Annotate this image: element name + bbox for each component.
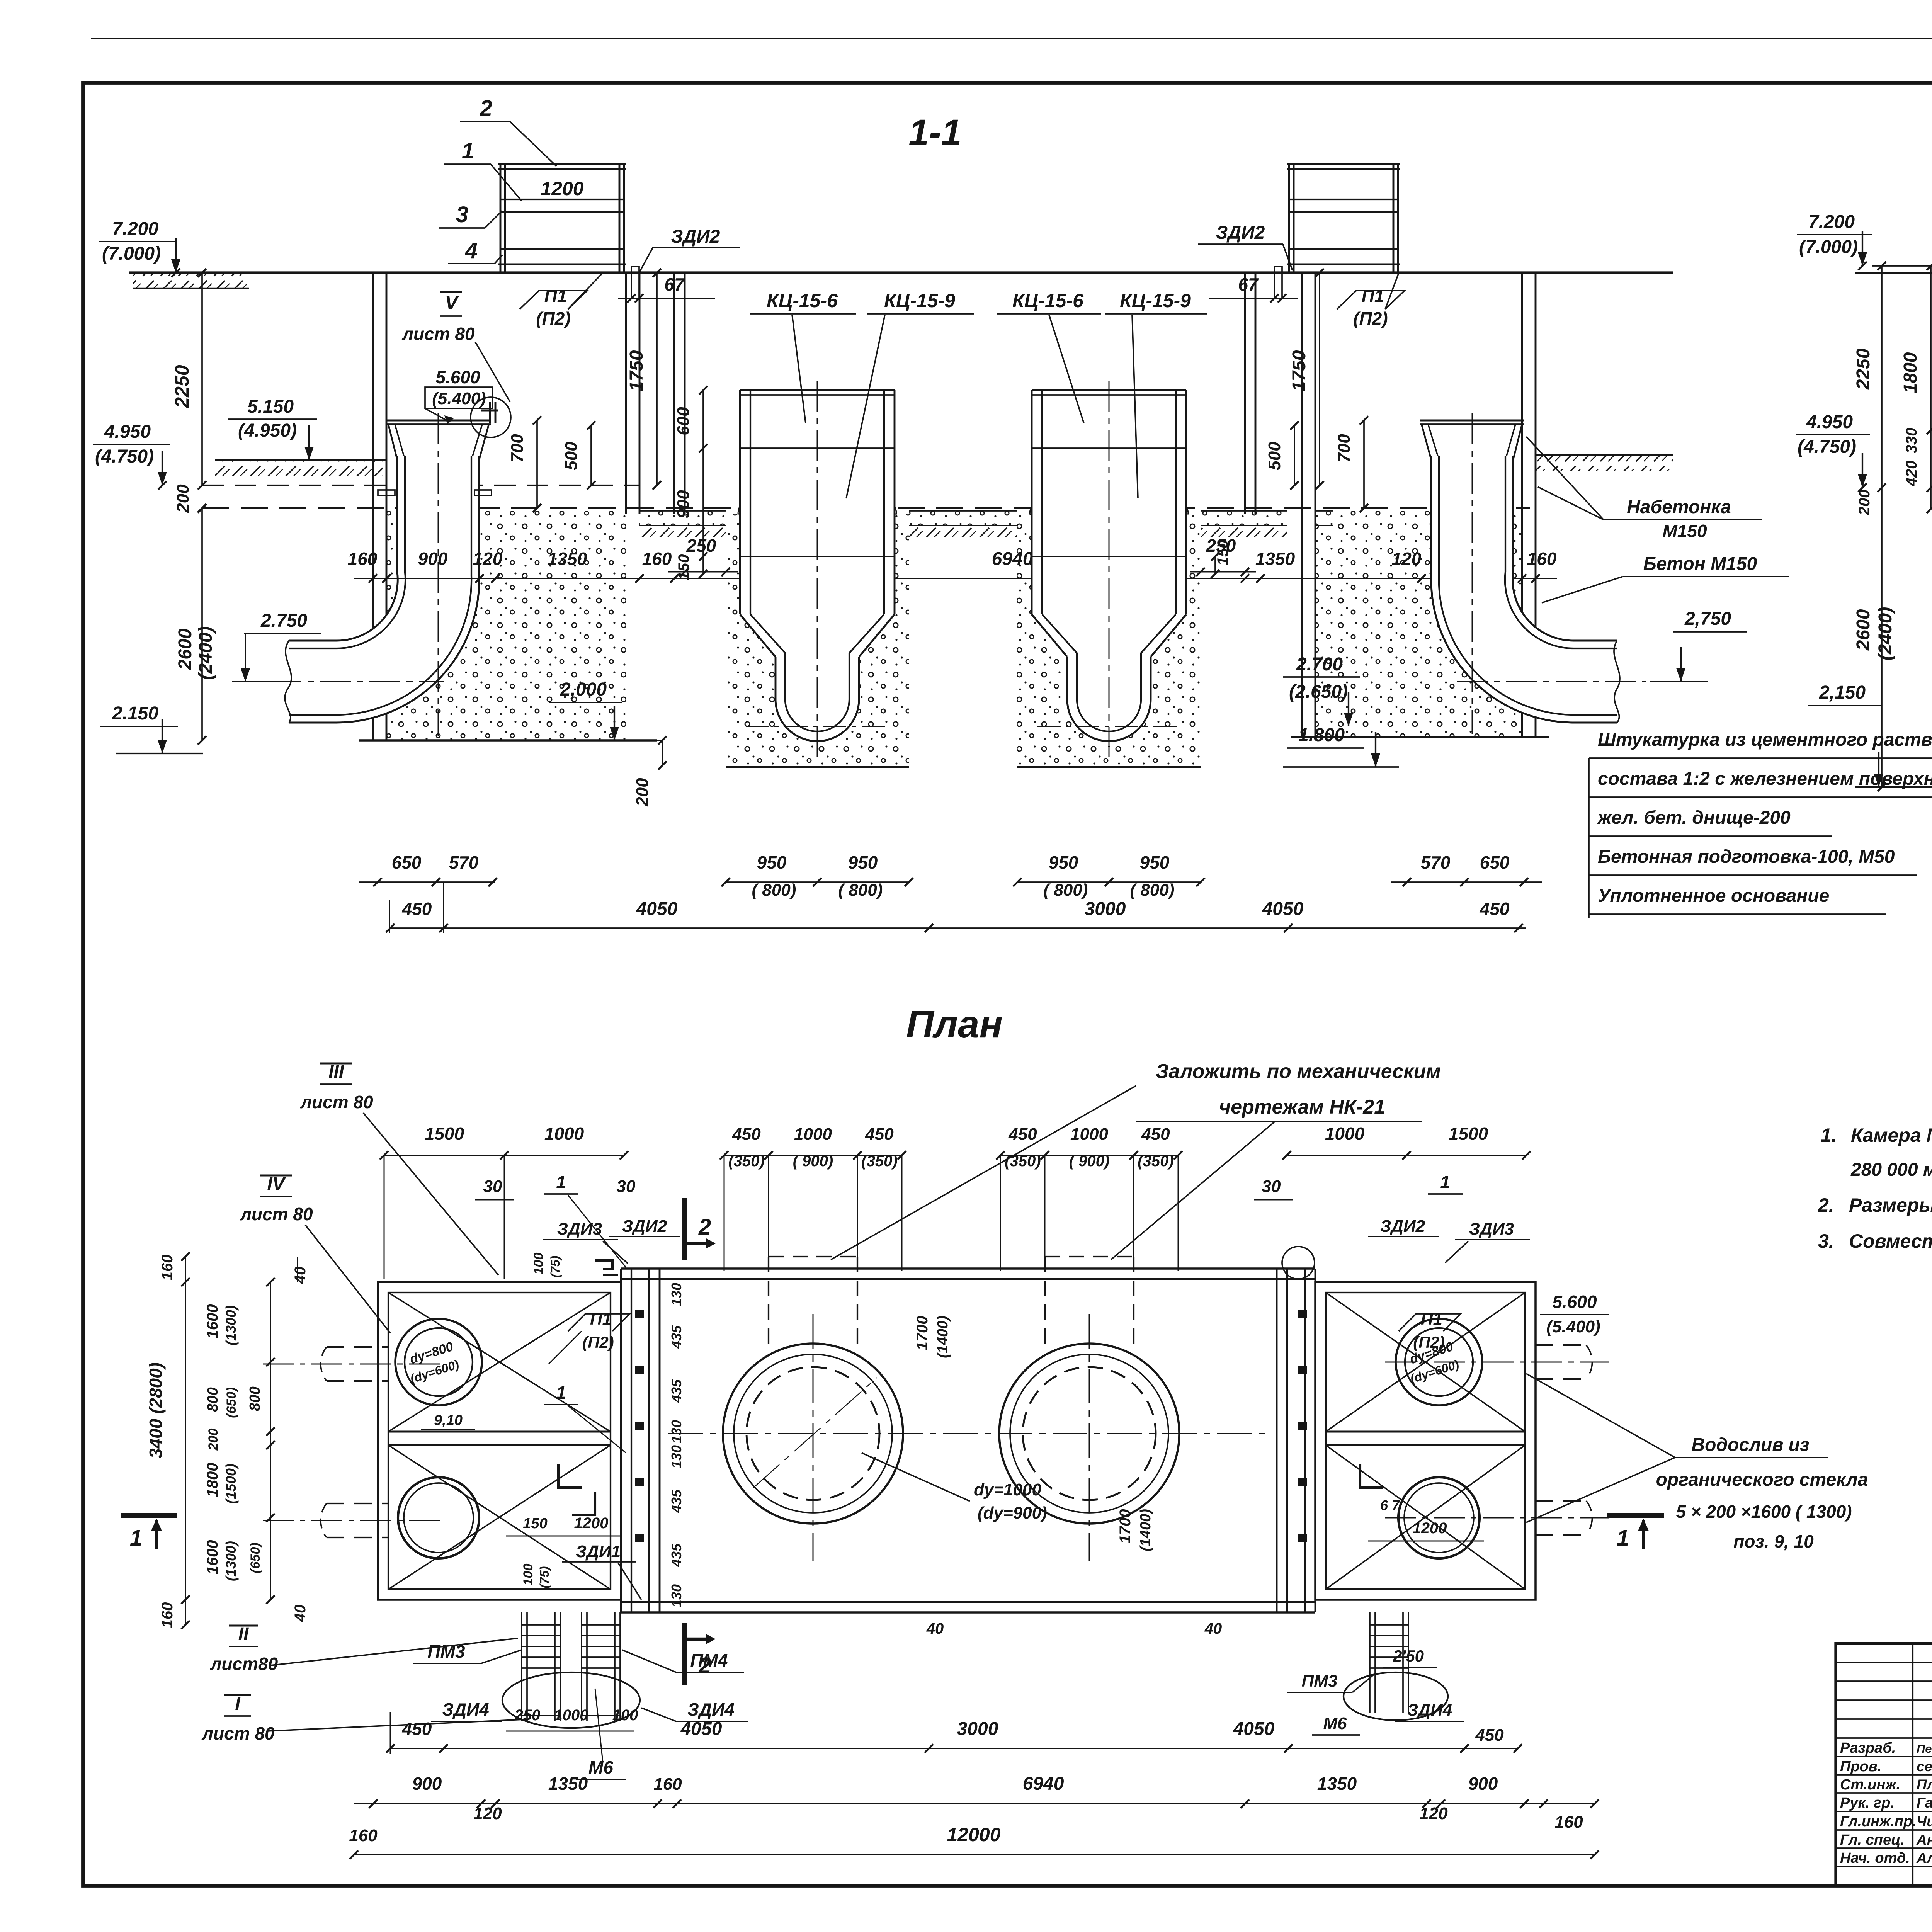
svg-text:5.150: 5.150 xyxy=(247,396,294,417)
svg-text:Чирков: Чирков xyxy=(1917,1813,1932,1829)
slab dashed line upper xyxy=(202,485,639,486)
svg-text:450: 450 xyxy=(732,1125,761,1144)
svg-text:1600: 1600 xyxy=(204,1304,221,1339)
svg-text:2600: 2600 xyxy=(1853,609,1874,651)
svg-text:450: 450 xyxy=(1475,1726,1504,1745)
dim chain mid right ticks xyxy=(1241,574,1249,583)
svg-text:6 7: 6 7 xyxy=(1380,1497,1400,1513)
2-2 tank bottom xyxy=(1855,786,1932,788)
svg-text:450: 450 xyxy=(1008,1125,1037,1144)
svg-text:160: 160 xyxy=(1554,1813,1583,1832)
svg-text:II: II xyxy=(238,1624,249,1645)
svg-text:(650): (650) xyxy=(248,1543,263,1573)
svg-text:Размеры и обозначения в с: Размеры и обозначения в скобках для каме… xyxy=(1849,1194,1932,1216)
svg-text:Уплотненное основание: Уплотненное основание xyxy=(1598,886,1829,906)
svg-text:450: 450 xyxy=(865,1125,894,1144)
plan bottom dim row 1 xyxy=(389,1748,1464,1749)
right chamber stipple xyxy=(1315,511,1522,737)
dim 570/650 right xyxy=(1391,881,1542,883)
svg-text:органического стекла: органического стекла xyxy=(1656,1469,1868,1490)
plan left dim column xyxy=(185,1257,186,1625)
svg-text:40: 40 xyxy=(292,1267,309,1284)
svg-text:120: 120 xyxy=(473,549,503,569)
svg-text:200: 200 xyxy=(633,778,652,807)
svg-text:900: 900 xyxy=(674,490,693,519)
svg-text:40: 40 xyxy=(1204,1620,1222,1637)
svg-text:(350): (350) xyxy=(728,1153,764,1170)
svg-text:ЗДИ4: ЗДИ4 xyxy=(442,1699,489,1719)
precast ring shaft KTs at x=2115 xyxy=(726,514,909,767)
svg-text:ЗДИ2: ЗДИ2 xyxy=(1216,223,1265,243)
svg-text:2250: 2250 xyxy=(171,365,193,408)
svg-text:435: 435 xyxy=(668,1489,684,1513)
svg-text:лист80: лист80 xyxy=(210,1654,278,1674)
floor hatch bands xyxy=(639,526,726,537)
svg-text:I: I xyxy=(235,1694,241,1714)
svg-text:4050: 4050 xyxy=(1233,1719,1275,1739)
svg-text:1000: 1000 xyxy=(544,1124,584,1144)
svg-text:1-1: 1-1 xyxy=(908,112,961,153)
svg-text:( 800): ( 800) xyxy=(1044,881,1088,900)
svg-text:2.: 2. xyxy=(1818,1194,1834,1216)
svg-text:1.: 1. xyxy=(1821,1124,1837,1146)
2-2 left dim verticals xyxy=(1881,266,1883,787)
plan left top circle dy=800 xyxy=(395,1319,482,1405)
svg-text:200: 200 xyxy=(1856,490,1873,516)
svg-text:( 800): ( 800) xyxy=(752,881,796,900)
plan corner bracket ZDI3 left xyxy=(595,1260,612,1269)
ZDI2 element at ground left xyxy=(631,267,639,298)
svg-text:1000: 1000 xyxy=(554,1707,588,1724)
plan right chamber mid wall xyxy=(1326,1431,1525,1433)
right pipe elbow outline xyxy=(1513,456,1617,641)
svg-text:2.750: 2.750 xyxy=(260,611,307,631)
plan strip top walls xyxy=(621,1267,1315,1270)
svg-text:КЦ-15-6: КЦ-15-6 xyxy=(767,290,838,311)
plan top dim 1000/1500 right xyxy=(1287,1155,1526,1156)
svg-text:(1300): (1300) xyxy=(223,1541,239,1581)
svg-text:ЗДИ3: ЗДИ3 xyxy=(1469,1219,1514,1238)
svg-text:160: 160 xyxy=(159,1255,176,1281)
svg-text:420: 420 xyxy=(1903,461,1920,487)
svg-text:100: 100 xyxy=(612,1707,638,1724)
plan corner bracket right xyxy=(1360,1464,1383,1488)
svg-text:4.950: 4.950 xyxy=(1806,412,1853,432)
svg-text:9,10: 9,10 xyxy=(434,1412,463,1429)
svg-text:435: 435 xyxy=(668,1543,684,1567)
plan bottom dim row 2 xyxy=(354,1803,1596,1804)
dim 500 left xyxy=(590,425,592,485)
svg-text:(П2): (П2) xyxy=(582,1333,614,1351)
plan section mark 2 bottom xyxy=(682,1623,687,1685)
svg-text:IV: IV xyxy=(267,1174,286,1194)
plan left chamber mid wall xyxy=(388,1431,611,1433)
plaster note block xyxy=(1588,758,1590,918)
svg-text:Петропавловская: Петропавловская xyxy=(1917,1742,1932,1755)
svg-text:2,000: 2,000 xyxy=(560,679,607,700)
right shaft wall xyxy=(1244,273,1246,514)
plan dashed pipes left bottom xyxy=(327,1503,388,1504)
svg-text:поз. 9, 10: поз. 9, 10 xyxy=(1733,1531,1814,1551)
svg-text:130: 130 xyxy=(668,1420,684,1443)
svg-text:1700: 1700 xyxy=(914,1316,931,1350)
slab dashed line lower (across) xyxy=(202,507,1530,509)
svg-text:950: 950 xyxy=(848,852,878,872)
svg-text:dy=1000: dy=1000 xyxy=(974,1480,1041,1499)
plan big opening circle 2 xyxy=(999,1344,1179,1524)
svg-text:40: 40 xyxy=(292,1605,309,1622)
svg-text:12000: 12000 xyxy=(947,1824,1000,1845)
svg-text:ПМ3: ПМ3 xyxy=(428,1641,465,1662)
svg-text:М6: М6 xyxy=(1323,1714,1347,1733)
plan section mark 1 left xyxy=(121,1513,177,1518)
svg-text:состава 1:2 с железнением пов: состава 1:2 с железнением поверхности-25 xyxy=(1598,769,1932,789)
plan right tower walls xyxy=(1276,1269,1278,1612)
svg-text:2'50: 2'50 xyxy=(1393,1647,1424,1665)
svg-text:4050: 4050 xyxy=(1262,899,1304,919)
railing box left (pos 1-4) xyxy=(500,164,502,273)
svg-text:Разраб.: Разраб. xyxy=(1840,1740,1896,1756)
svg-text:160: 160 xyxy=(349,1826,378,1845)
svg-text:2.150: 2.150 xyxy=(112,703,158,724)
svg-text:160: 160 xyxy=(642,549,672,569)
svg-text:КЦ-15-6: КЦ-15-6 xyxy=(1012,290,1084,311)
svg-text:(4.750): (4.750) xyxy=(1798,437,1856,457)
floor slab stipple bands xyxy=(639,511,726,526)
svg-text:1750: 1750 xyxy=(626,350,647,391)
svg-text:1000: 1000 xyxy=(1070,1125,1108,1144)
svg-text:150: 150 xyxy=(1214,540,1231,566)
svg-text:1: 1 xyxy=(1617,1526,1629,1551)
left dim line 2250 xyxy=(201,273,203,485)
svg-text:Пров.: Пров. xyxy=(1840,1759,1881,1775)
svg-text:3: 3 xyxy=(456,202,468,227)
pipe break wavy end xyxy=(285,641,291,723)
svg-text:1000: 1000 xyxy=(1325,1124,1365,1144)
svg-text:( 900): ( 900) xyxy=(793,1153,833,1170)
railing box right xyxy=(1288,164,1290,273)
svg-text:Гл.инж.пр.: Гл.инж.пр. xyxy=(1840,1813,1917,1830)
svg-text:570: 570 xyxy=(449,852,479,872)
plan strip centerline xyxy=(668,1433,1267,1434)
svg-text:120: 120 xyxy=(1419,1804,1448,1823)
svg-text:Гарбуз: Гарбуз xyxy=(1917,1795,1932,1811)
ring dim 150 right xyxy=(1214,556,1216,574)
svg-text:900: 900 xyxy=(418,549,448,569)
svg-text:(5.400): (5.400) xyxy=(432,389,486,408)
svg-text:2,150: 2,150 xyxy=(1819,682,1866,703)
svg-text:семенова: семенова xyxy=(1917,1759,1932,1774)
svg-text:(2400): (2400) xyxy=(1875,607,1896,661)
svg-text:Нач. отд.: Нач. отд. xyxy=(1840,1850,1910,1866)
svg-text:1350: 1350 xyxy=(548,1774,588,1794)
sheet top trim line xyxy=(91,38,1932,39)
plan bolts on tower walls xyxy=(636,1310,643,1317)
svg-text:900: 900 xyxy=(1468,1774,1498,1794)
name table upper empty rows xyxy=(1836,1662,1932,1663)
plan left bottom circle xyxy=(398,1477,479,1558)
svg-text:3000: 3000 xyxy=(957,1719,998,1739)
svg-text:30: 30 xyxy=(617,1177,636,1196)
svg-text:67: 67 xyxy=(664,274,685,294)
svg-text:450: 450 xyxy=(402,1719,432,1739)
svg-text:П1: П1 xyxy=(1362,286,1384,306)
svg-text:КЦ-15-9: КЦ-15-9 xyxy=(1120,290,1191,311)
dim 700 left xyxy=(536,420,538,508)
svg-text:(7.000): (7.000) xyxy=(102,243,161,264)
svg-text:1500: 1500 xyxy=(1449,1124,1488,1144)
svg-text:600: 600 xyxy=(674,407,693,435)
svg-text:1800: 1800 xyxy=(1900,352,1921,393)
plan right bottom circle xyxy=(1398,1477,1480,1558)
plan ladder right group xyxy=(1369,1612,1371,1679)
svg-text:1: 1 xyxy=(1440,1172,1450,1192)
svg-text:Бетон М150: Бетон М150 xyxy=(1643,554,1757,574)
dim 1750 right shaft xyxy=(1319,273,1320,485)
svg-text:1700: 1700 xyxy=(1117,1509,1134,1544)
svg-text:Штукатурка из цементного ра: Штукатурка из цементного раствора xyxy=(1598,730,1932,750)
dim 500 right xyxy=(1294,425,1295,485)
svg-text:М6: М6 xyxy=(588,1757,613,1777)
svg-text:лист 80: лист 80 xyxy=(401,324,475,344)
plan top dims over openings xyxy=(724,1155,902,1156)
svg-text:2600: 2600 xyxy=(175,628,196,670)
svg-text:V: V xyxy=(445,292,459,313)
svg-text:(1400): (1400) xyxy=(935,1316,951,1358)
plan ladder PM4 left xyxy=(581,1612,582,1679)
svg-text:III: III xyxy=(328,1062,345,1082)
name table rows xyxy=(1836,1737,1932,1739)
svg-text:40: 40 xyxy=(926,1620,944,1637)
svg-text:ЗДИ2: ЗДИ2 xyxy=(622,1217,667,1236)
plan dim 250/1000/100 xyxy=(506,1731,634,1732)
svg-text:Андрианов: Андрианов xyxy=(1916,1832,1932,1848)
svg-text:ЗДИ1: ЗДИ1 xyxy=(576,1542,621,1561)
svg-text:1800: 1800 xyxy=(204,1463,221,1497)
svg-text:1: 1 xyxy=(462,138,474,163)
svg-text:(4.950): (4.950) xyxy=(238,420,297,441)
svg-text:500: 500 xyxy=(1265,442,1284,470)
svg-text:1200: 1200 xyxy=(541,178,583,199)
svg-text:800: 800 xyxy=(247,1386,263,1411)
svg-text:1500: 1500 xyxy=(425,1124,464,1144)
svg-text:Платунина: Платунина xyxy=(1917,1777,1932,1793)
svg-text:ПМ4: ПМ4 xyxy=(690,1650,728,1670)
svg-text:4: 4 xyxy=(465,238,478,263)
funnel base lines xyxy=(726,766,909,768)
svg-text:(7.000): (7.000) xyxy=(1799,237,1858,257)
svg-text:(1300): (1300) xyxy=(223,1305,239,1345)
svg-text:4050: 4050 xyxy=(636,899,678,919)
plan section mark 2 top xyxy=(682,1198,687,1260)
svg-text:150: 150 xyxy=(675,554,692,580)
svg-text:лист 80: лист 80 xyxy=(240,1204,313,1224)
svg-text:6940: 6940 xyxy=(1023,1774,1064,1794)
svg-text:1: 1 xyxy=(556,1383,566,1403)
svg-text:ЗДИ2: ЗДИ2 xyxy=(671,226,720,247)
dim 2600 (2400) left xyxy=(201,509,203,740)
dim 650/570 left xyxy=(359,881,495,883)
svg-text:П1: П1 xyxy=(1421,1310,1442,1328)
svg-text:3000: 3000 xyxy=(1085,899,1126,919)
right chamber bottom xyxy=(1291,736,1549,738)
svg-text:( 800): ( 800) xyxy=(1130,881,1175,900)
svg-text:200: 200 xyxy=(173,484,192,513)
svg-text:жел. бет. днище-200: жел. бет. днище-200 xyxy=(1597,808,1791,828)
dim 1750 left shaft xyxy=(656,273,658,485)
plan left cell X diagonals top xyxy=(388,1293,611,1432)
plan left cell X diagonals bottom xyxy=(388,1445,611,1589)
svg-text:(П2): (П2) xyxy=(1353,308,1388,328)
svg-text:1200: 1200 xyxy=(1413,1520,1447,1537)
svg-text:700: 700 xyxy=(508,434,527,463)
ring height dims 600/900/150 xyxy=(702,390,704,574)
svg-text:(350): (350) xyxy=(1005,1153,1041,1170)
plan big opening circle 1 xyxy=(723,1344,903,1524)
plan bottom dim row 3 xyxy=(354,1854,1595,1855)
svg-text:1: 1 xyxy=(130,1526,142,1551)
plan ladder hooks oval left xyxy=(502,1672,640,1728)
svg-text:130: 130 xyxy=(668,1445,684,1468)
funnel width dims 950/(800) xyxy=(726,881,909,883)
svg-text:лист 80: лист 80 xyxy=(201,1723,275,1743)
svg-text:4.950: 4.950 xyxy=(104,422,151,442)
svg-text:ЗДИ4: ЗДИ4 xyxy=(687,1699,734,1719)
svg-text:3400 (2800): 3400 (2800) xyxy=(146,1362,166,1458)
svg-text:1: 1 xyxy=(556,1172,566,1192)
svg-text:1600: 1600 xyxy=(204,1540,221,1575)
svg-text:450: 450 xyxy=(1480,899,1510,919)
vertical pipe left chamber xyxy=(386,511,626,740)
svg-text:7.200: 7.200 xyxy=(112,219,158,239)
svg-text:(650): (650) xyxy=(224,1387,239,1418)
svg-text:100: 100 xyxy=(521,1564,536,1586)
svg-text:(350): (350) xyxy=(1138,1153,1173,1170)
svg-text:(П2): (П2) xyxy=(536,308,570,328)
svg-text:5.600: 5.600 xyxy=(1552,1292,1597,1312)
plan corner bracket left xyxy=(558,1464,582,1488)
svg-text:(П2): (П2) xyxy=(1413,1333,1445,1351)
svg-text:1200: 1200 xyxy=(574,1515,609,1532)
right chamber walls xyxy=(1301,273,1303,737)
right pipe centerlines xyxy=(1472,413,1473,734)
dim 700 right xyxy=(1363,420,1365,508)
svg-text:Камера N7 для аэротенка: Камера N7 для аэротенка производительнос… xyxy=(1851,1124,1932,1146)
dim chain mid xyxy=(354,578,1557,579)
ZDI2 element at ground right xyxy=(1274,267,1282,298)
plan dashed hatch openings top 1 xyxy=(769,1256,857,1257)
svg-text:450: 450 xyxy=(402,899,432,919)
plan right top circle dy=800 xyxy=(1396,1319,1482,1405)
svg-text:280 000 м ³/сут. , камера: 280 000 м ³/сут. , камера N8 для аэротен… xyxy=(1850,1160,1932,1180)
svg-text:30: 30 xyxy=(483,1177,502,1196)
svg-text:160: 160 xyxy=(348,549,378,569)
svg-text:330: 330 xyxy=(1903,428,1920,454)
svg-text:5 × 200 ×1600 ( 1300): 5 × 200 ×1600 ( 1300) xyxy=(1676,1502,1852,1522)
plan dashed pipes right top xyxy=(1536,1344,1586,1346)
svg-text:950: 950 xyxy=(1049,852,1078,872)
svg-text:150: 150 xyxy=(523,1515,547,1532)
svg-text:450: 450 xyxy=(1141,1125,1170,1144)
precast ring shaft KTs at x=2870 xyxy=(1017,514,1201,767)
svg-text:1350: 1350 xyxy=(1317,1774,1357,1794)
svg-text:900: 900 xyxy=(412,1774,442,1794)
soil hatch below ground left xyxy=(133,273,249,288)
svg-text:435: 435 xyxy=(668,1379,684,1403)
svg-text:КЦ-15-9: КЦ-15-9 xyxy=(884,290,955,311)
svg-text:(75): (75) xyxy=(537,1566,551,1588)
svg-text:План: План xyxy=(906,1003,1003,1046)
plan left chamber box xyxy=(378,1282,621,1600)
svg-text:2250: 2250 xyxy=(1853,348,1874,390)
svg-text:(5.400): (5.400) xyxy=(1546,1317,1600,1336)
left shaft wall xyxy=(673,273,675,514)
svg-text:500: 500 xyxy=(562,442,581,470)
svg-text:570: 570 xyxy=(1421,852,1451,872)
svg-text:(2400): (2400) xyxy=(196,626,216,680)
svg-text:650: 650 xyxy=(392,852,422,872)
title block outer xyxy=(1836,1643,1932,1886)
svg-text:Бетонная подготовка-100, М50: Бетонная подготовка-100, М50 xyxy=(1598,847,1895,867)
svg-text:Водослив из: Водослив из xyxy=(1692,1435,1810,1455)
svg-text:Ст.инж.: Ст.инж. xyxy=(1840,1777,1900,1793)
svg-text:1750: 1750 xyxy=(1289,350,1310,391)
natural ground hatch right of chamber xyxy=(1536,454,1673,456)
svg-text:100: 100 xyxy=(531,1253,546,1275)
svg-text:3.: 3. xyxy=(1818,1230,1834,1252)
svg-text:(4.750): (4.750) xyxy=(95,446,154,467)
svg-text:200: 200 xyxy=(206,1429,221,1451)
svg-text:67: 67 xyxy=(1238,274,1259,294)
svg-text:чертежам НК-21: чертежам НК-21 xyxy=(1219,1096,1385,1118)
plan right chamber box xyxy=(1315,1282,1536,1600)
svg-text:130: 130 xyxy=(668,1584,684,1607)
svg-text:130: 130 xyxy=(668,1283,684,1306)
plan dashed pipes left top xyxy=(327,1346,388,1348)
svg-text:4050: 4050 xyxy=(680,1719,722,1739)
plan right cell X diagonals xyxy=(1326,1293,1525,1432)
svg-text:ЗДИ4: ЗДИ4 xyxy=(1407,1701,1452,1719)
svg-text:160: 160 xyxy=(1527,549,1557,569)
svg-text:(1400): (1400) xyxy=(1138,1509,1154,1551)
plan section mark 1 right xyxy=(1607,1513,1664,1518)
left chamber bottom xyxy=(359,739,657,742)
2-2 ground line xyxy=(1855,272,1932,274)
svg-text:950: 950 xyxy=(757,852,787,872)
svg-text:Рук. гр.: Рук. гр. xyxy=(1840,1795,1895,1811)
dim 200 under funnel xyxy=(662,740,663,765)
inlet trough left chamber xyxy=(386,420,491,422)
svg-text:( 800): ( 800) xyxy=(838,881,883,900)
svg-text:( 900): ( 900) xyxy=(1069,1153,1110,1170)
anchor tabs on pipe xyxy=(378,490,395,495)
svg-text:160: 160 xyxy=(159,1602,176,1628)
pipe centerlines xyxy=(438,413,439,736)
plan ladder PM3 left xyxy=(521,1612,522,1679)
svg-text:30: 30 xyxy=(1262,1177,1281,1196)
svg-text:(dy=900): (dy=900) xyxy=(978,1503,1047,1522)
svg-text:П1: П1 xyxy=(590,1310,612,1328)
detail circle at trough rim xyxy=(471,397,511,437)
plan detail circle at right tower xyxy=(1282,1247,1315,1279)
svg-text:7.200: 7.200 xyxy=(1808,212,1855,232)
svg-text:435: 435 xyxy=(668,1325,684,1349)
svg-text:(75): (75) xyxy=(548,1256,562,1278)
svg-text:1350: 1350 xyxy=(1255,549,1295,569)
plan strip bottom walls xyxy=(621,1611,1315,1614)
bottom dim row 450/4050/3000/4050/450 xyxy=(389,927,1526,929)
pipe elbow outline xyxy=(289,456,398,641)
